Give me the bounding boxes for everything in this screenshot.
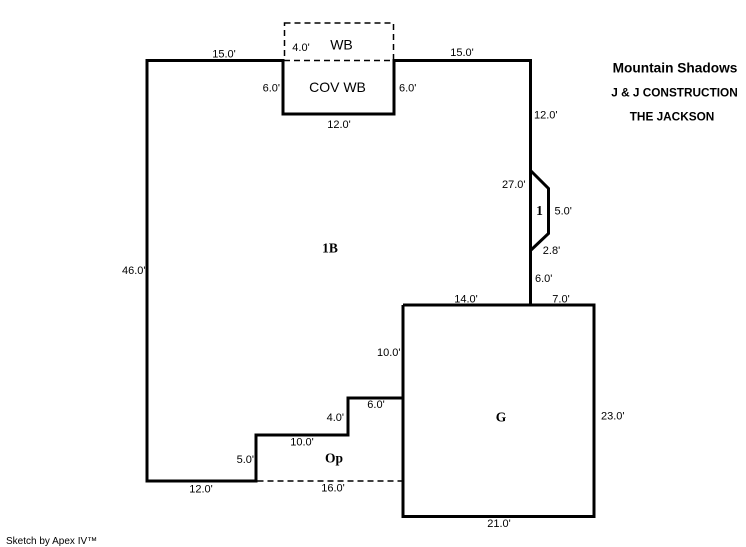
wall: 1B top-right segment: [393, 61, 531, 306]
svg-text:J & J CONSTRUCTION: J & J CONSTRUCTION: [611, 86, 738, 100]
svg-text:16.0': 16.0': [321, 483, 345, 495]
svg-text:COV WB: COV WB: [309, 79, 366, 95]
svg-text:1B: 1B: [322, 241, 338, 256]
svg-text:12.0': 12.0': [189, 484, 213, 496]
svg-text:Op: Op: [325, 451, 343, 466]
wall: lower-left steps of 1B: [146, 398, 404, 481]
svg-text:1: 1: [536, 203, 543, 218]
svg-text:10.0': 10.0': [290, 437, 314, 449]
svg-text:14.0': 14.0': [454, 294, 478, 306]
svg-text:4.0': 4.0': [292, 42, 309, 54]
svg-text:G: G: [496, 410, 507, 425]
svg-text:6.0': 6.0': [367, 399, 384, 411]
svg-text:21.0': 21.0': [487, 518, 511, 530]
svg-text:6.0': 6.0': [263, 83, 280, 95]
svg-text:6.0': 6.0': [399, 83, 416, 95]
svg-text:46.0': 46.0': [122, 265, 146, 277]
svg-text:Sketch by Apex IV™: Sketch by Apex IV™: [6, 536, 97, 547]
dashed WB box: [285, 23, 394, 61]
svg-text:15.0': 15.0': [212, 49, 236, 61]
svg-text:7.0': 7.0': [552, 294, 569, 306]
svg-text:12.0': 12.0': [534, 110, 558, 122]
svg-text:10.0': 10.0': [377, 347, 401, 359]
svg-text:6.0': 6.0': [535, 273, 552, 285]
wall: COV WB notch (left, bottom, right): [283, 59, 394, 114]
svg-text:Mountain Shadows: Mountain Shadows: [613, 61, 738, 76]
wall: garage G box: [403, 305, 594, 517]
svg-text:15.0': 15.0': [450, 47, 474, 59]
wall: 1B left and top-left perimeter: [147, 61, 285, 482]
svg-text:WB: WB: [330, 37, 353, 53]
svg-text:5.0': 5.0': [237, 454, 254, 466]
svg-text:23.0': 23.0': [601, 411, 625, 423]
svg-text:2.8': 2.8': [543, 245, 560, 257]
svg-text:5.0': 5.0': [555, 206, 572, 218]
svg-text:4.0': 4.0': [327, 412, 344, 424]
svg-text:12.0': 12.0': [327, 119, 351, 131]
svg-text:THE JACKSON: THE JACKSON: [630, 110, 715, 124]
svg-text:27.0': 27.0': [502, 179, 526, 191]
dashed Op porch bottom line 16.0': [258, 480, 404, 482]
bay window shape 1: [531, 171, 549, 251]
